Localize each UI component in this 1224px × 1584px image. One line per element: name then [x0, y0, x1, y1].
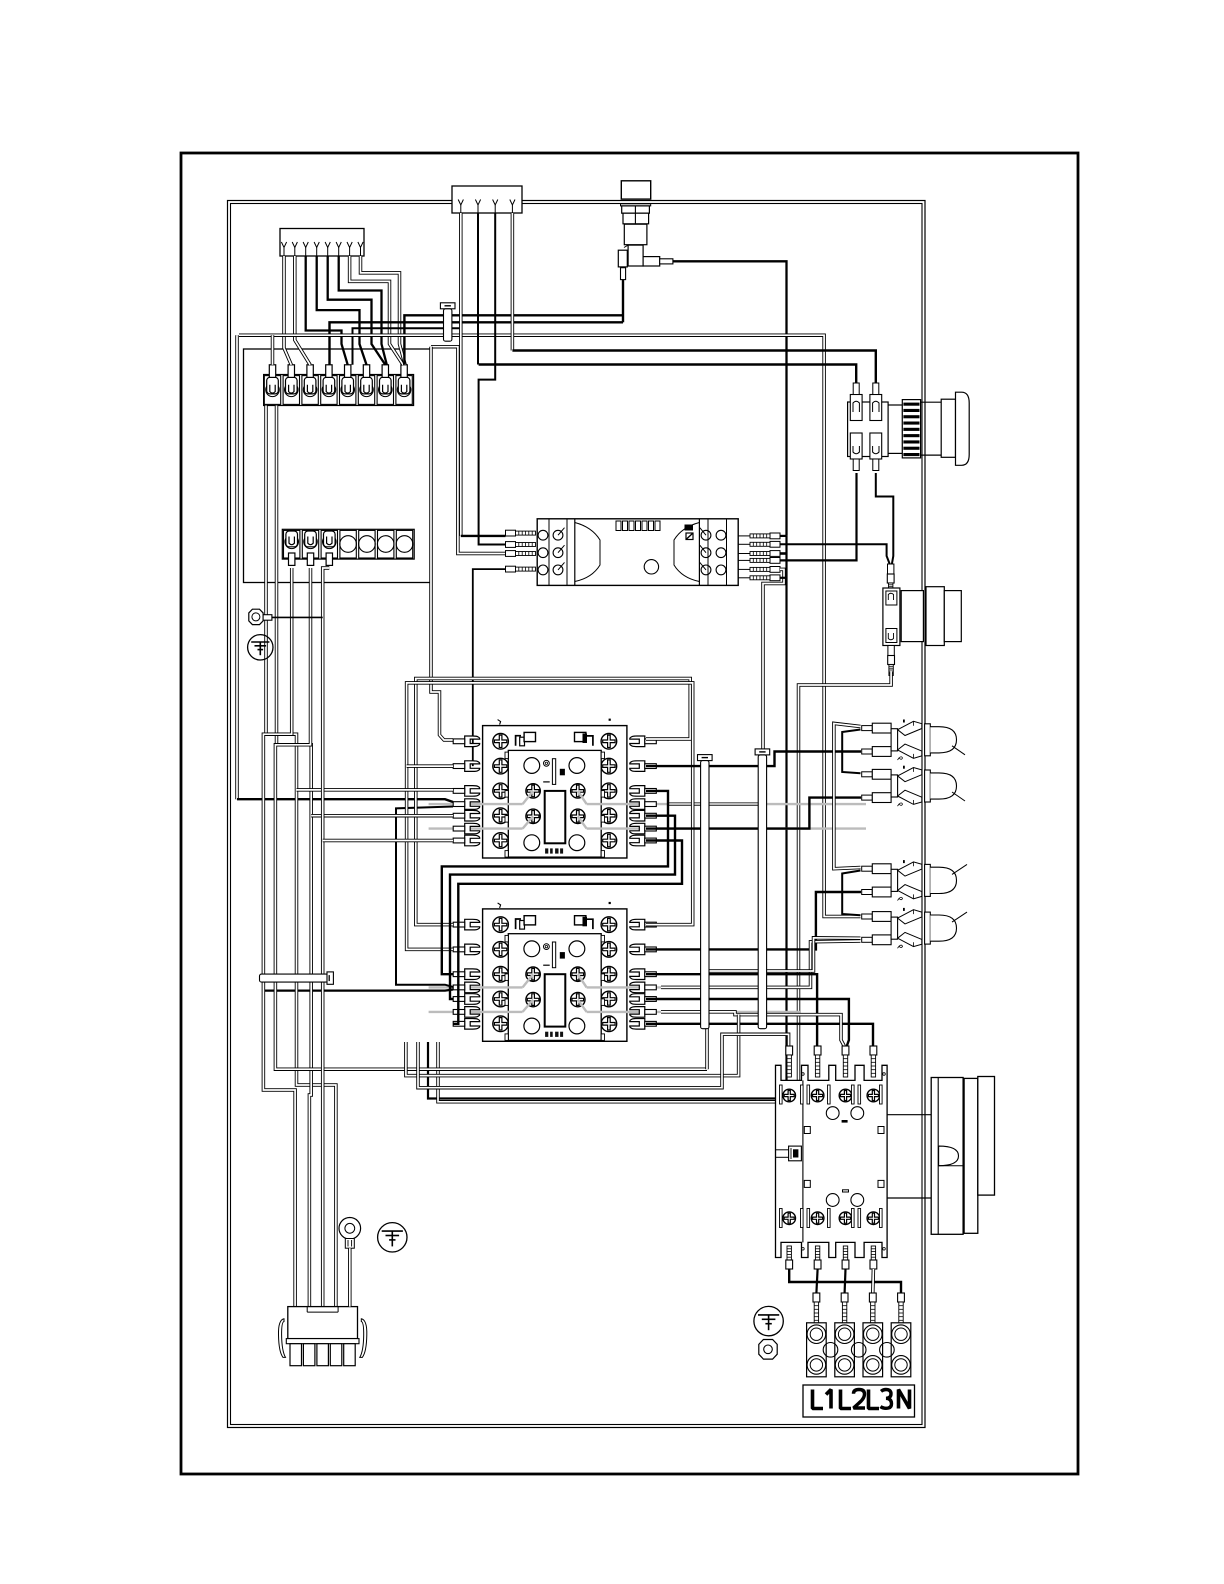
- emergency stop button PB1: [848, 402, 889, 457]
- K1 right screws: [601, 734, 617, 750]
- K2 coil screws: [526, 967, 540, 981]
- wire fuse holder down to under-bus: [438, 672, 891, 1102]
- indicator lamp H2: [862, 772, 873, 777]
- PSU output ferrules: [770, 533, 780, 539]
- E-stop body: [888, 405, 902, 453]
- wire PSU-out6 stub: [780, 577, 787, 579]
- wire CB1 t3 to L2 post: [843, 1269, 846, 1293]
- wire ground stud to TB2-2 wire: [272, 616, 323, 618]
- under-bus 1 riser: [406, 1015, 739, 1076]
- K1 contact glyph right: [575, 732, 586, 741]
- J3 latch right: [360, 1319, 367, 1358]
- ground symbol near J3: [378, 1223, 407, 1252]
- K2 left screws: [493, 917, 509, 933]
- wire CB1 out jog bus to N post: [789, 1269, 901, 1293]
- wire K1 aux to K2 aux chain: [396, 807, 453, 988]
- K2 contact glyph left: [516, 919, 521, 929]
- E-stop barrel through panel: [921, 401, 942, 403]
- ground symbol mid-left: [248, 635, 273, 660]
- wire J1 pin1 to TB1-2: [284, 256, 291, 365]
- indicator lamp H1: [862, 726, 873, 731]
- wire K2 row1 right wrap to K2 row2 left: [407, 683, 693, 950]
- cable duct bar 2: [755, 749, 770, 755]
- K2 right screws: [601, 917, 617, 933]
- wire K2 row4 to CB1 t3: [646, 999, 849, 1046]
- wire to K1 A1 (pair from bus): [431, 347, 453, 740]
- wire K1 row2 left tee: [407, 764, 453, 768]
- K1 inner module: [508, 750, 601, 857]
- CB1 indicator circles bottom: [826, 1194, 839, 1207]
- K1 center slot: [545, 791, 566, 843]
- ring lug PE: [339, 1218, 361, 1240]
- wire F (TB2-3 down to J3): [323, 568, 330, 1307]
- disconnect handle assembly: [887, 1114, 931, 1116]
- E-stop mounting plate: [941, 399, 955, 457]
- cable clamp CL2: [260, 974, 329, 982]
- wire CB1 t4 to L3 post: [871, 1269, 875, 1293]
- wire K2 aux2 pair to CB1 t3 (V): [661, 1012, 844, 1046]
- wire E (TB2-2 down to under-bus): [275, 568, 707, 1069]
- K2 center slot: [545, 974, 566, 1026]
- ground stud: [249, 609, 263, 624]
- inner panel outline: [228, 201, 926, 1428]
- main contactor CB1 body: [776, 1065, 888, 1257]
- wire K2 row3 to CB1 t2: [646, 974, 817, 1046]
- connector J1 (8-pin): [280, 229, 364, 257]
- wire K1 row5 right to K2 row5 left: [453, 841, 682, 1024]
- K1 label text: [545, 848, 548, 853]
- under-bus 2 to CB1 t1: [418, 1034, 789, 1087]
- CB1 corner dots: [802, 1073, 805, 1076]
- sensor elbow fitting: [628, 245, 643, 266]
- wire K2 row5 to CB1 t4: [646, 1024, 873, 1046]
- LED chain H1-H2: [842, 730, 860, 774]
- wire F branch to K1 row5: [323, 839, 453, 843]
- wire K1 row4 right to K2 row4 left: [450, 816, 675, 999]
- K2 corner pads: [524, 941, 540, 957]
- PSU logo: [685, 525, 694, 531]
- wire PSU-out1 stub: [780, 535, 787, 537]
- wire CB1 t2 to L1 post: [816, 1269, 817, 1293]
- K2 inner module: [508, 934, 601, 1041]
- wire K1 row3 right to K2 row3 left: [442, 791, 668, 974]
- wire PSU-out5 to K1 aux: [667, 569, 784, 804]
- K2 contact glyph right: [575, 916, 586, 925]
- CB1 bottom screws: [783, 1212, 796, 1225]
- contactor K2 body: [483, 909, 627, 1041]
- E-stop collar: [902, 400, 920, 458]
- wire J1 pin4 to TB1-6: [317, 256, 367, 365]
- bus A (sensor to TB1-8): [404, 315, 623, 365]
- wire C (TB1-2 to J3): [277, 406, 312, 1307]
- cable duct bar 1: [698, 755, 713, 761]
- wire PSU-out4 to E-stop: [780, 473, 857, 560]
- K2 gray jumper lower: [429, 1011, 523, 1013]
- K1 coil screws: [526, 784, 540, 798]
- wire PSU-in4 feed: [473, 569, 506, 766]
- label L1 L2 L3 N: [803, 1385, 915, 1417]
- terminal strip TB2 (7 terminals): [282, 529, 414, 559]
- wire J1 pin6 to TB1-7: [339, 256, 387, 365]
- supply terminal posts: [807, 1323, 827, 1377]
- left terminal board box: [244, 349, 432, 583]
- wire lug to J3: [348, 1248, 352, 1306]
- PSU input ferrules: [506, 530, 516, 536]
- bus E (J2 pin4 to E-stop 14): [511, 213, 515, 351]
- wire sensor drop: [622, 280, 624, 323]
- K2 polarity marks: [498, 903, 501, 908]
- K1 left fork terminals: [465, 736, 480, 747]
- LED chain H3-H4: [842, 871, 860, 916]
- K1 right fork terminals: [630, 736, 645, 747]
- indicator lamp H3: [862, 866, 873, 871]
- K2 indicator parts: [544, 944, 550, 950]
- power supply PSU1: [537, 519, 738, 586]
- wire B (TB1-1 to J3): [266, 406, 336, 1307]
- terminal strip TB1 (8 ring terminals): [264, 375, 414, 406]
- wire K2 aux second feed: [263, 990, 453, 991]
- post link circles: [823, 1343, 838, 1358]
- bus B (sensor to TB1-4): [330, 322, 624, 365]
- J3 latch left: [278, 1319, 285, 1358]
- K2 right fork terminals: [630, 919, 645, 930]
- hex nut bottom-right: [759, 1340, 777, 1360]
- contactor K1 body: [483, 726, 627, 858]
- wire sensor to PSU node: [673, 261, 787, 536]
- E-stop mushroom head: [956, 392, 970, 465]
- fuse bottom crimp: [888, 646, 894, 656]
- wire J1 pin3 to TB1-5: [306, 256, 348, 365]
- wire D (TB2-1 down to J3): [263, 568, 295, 1307]
- K1 gray jumper upper: [429, 803, 523, 805]
- wire K1 row1 right wrap to K2 row1 left: [416, 679, 690, 925]
- outer border frame: [181, 153, 1078, 1474]
- CB1 top screws: [783, 1089, 796, 1102]
- wire PSU-out3 stub: [780, 552, 787, 555]
- LED supply bus (pair): [239, 335, 861, 916]
- wire D branch to K1 row3: [297, 788, 454, 792]
- wire J1 pin5 to TB1-7: [328, 256, 386, 365]
- wire LED4- to under-bus: [707, 938, 861, 1069]
- K2 left fork terminals: [465, 919, 480, 930]
- wire PSU-in3 feed: [431, 347, 506, 554]
- CB1 inner lines: [802, 1080, 804, 1242]
- CB1 indicator circles top: [826, 1107, 839, 1120]
- wire J2 pin3 to PSU-in2: [479, 213, 506, 545]
- CB1 side notches: [804, 1127, 810, 1134]
- fuse holder F1: [888, 564, 894, 574]
- CB1 bottom ferrules: [787, 1246, 791, 1260]
- LED chain bus H1-H3: [834, 723, 861, 868]
- K2 label text: [545, 1032, 548, 1037]
- sensor S1 (top mounted): [621, 181, 650, 199]
- K1 indicator parts: [544, 760, 550, 766]
- wire J1 pin2 to TB1-3: [295, 256, 310, 365]
- wire J1 pin7 to TB1-8: [350, 256, 404, 365]
- K2 gray jumper upper: [429, 986, 523, 988]
- wire K2 row2 to LED3-: [646, 892, 861, 949]
- fuse holder through-panel parts: [901, 591, 923, 642]
- K1 contact glyph left: [516, 736, 521, 746]
- bus D (J2 pin2 to E-stop 13): [477, 213, 479, 365]
- L-post input ferrules: [813, 1293, 820, 1302]
- CB1 top ferrules: [786, 1046, 793, 1055]
- K1 gray jumper lower: [429, 827, 523, 829]
- wire J1 pin8 to TB1-8: [361, 256, 406, 365]
- CB1 coil symbol: [789, 1146, 802, 1161]
- wire LED bus to TB1-1: [271, 335, 275, 365]
- wire K1 row2 to LED1-: [646, 752, 861, 767]
- cable clamp CL1: [440, 303, 455, 309]
- K1 polarity marks: [498, 720, 501, 725]
- wire K2 aux to LED4-: [661, 941, 861, 987]
- PSU output node vertical: [428, 536, 787, 1099]
- wire E branch to K1 row4: [311, 814, 453, 818]
- wire K1 row4.5 to LED2-: [646, 798, 861, 829]
- bus C (TB1-5 to PSU-in1): [353, 328, 462, 365]
- wire J2 pin1 to PSU-in1: [459, 213, 463, 536]
- wire A to K1 aux (V crimp): [235, 335, 239, 799]
- connector J3 (bottom-left): [288, 1307, 358, 1339]
- K1 left screws: [493, 734, 509, 750]
- connector J2 (4-pin): [452, 186, 522, 213]
- wire E-stop 22 to fuse: [876, 473, 894, 564]
- ground symbol bottom-right: [754, 1306, 783, 1335]
- wire PSU-out2 to fuse: [780, 544, 890, 564]
- indicator lamp H4: [862, 914, 873, 919]
- K1 corner pads: [524, 758, 540, 774]
